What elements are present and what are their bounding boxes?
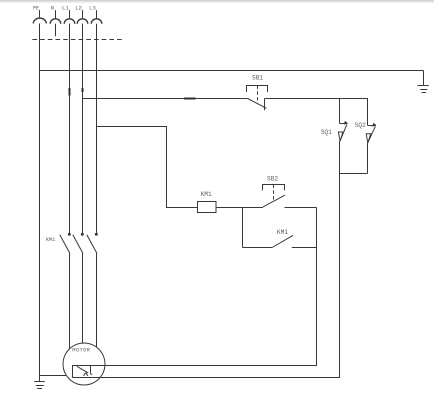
wire PE to motor frame	[40, 375, 67, 377]
contactor KM1 main contact pole 2	[73, 233, 84, 254]
terminal L3	[91, 10, 102, 24]
wire SQ1 branch drop	[339, 99, 341, 124]
wire N stub	[55, 24, 57, 37]
wire L3 to motor	[96, 254, 98, 348]
svg-text:SB2: SB2	[267, 175, 278, 182]
wire L1 vertical	[69, 24, 71, 235]
contactor KM1 main contact pole 3	[87, 233, 98, 254]
wire control rail from L2	[83, 98, 248, 100]
wire SQ2 lower	[367, 143, 369, 174]
wire SQ join down to motor protector	[72, 174, 339, 378]
wire overlap mark on L1	[69, 88, 71, 96]
top page edge shading	[0, 0, 434, 2]
svg-text:L2: L2	[75, 5, 82, 12]
ground bottom left	[34, 382, 45, 389]
pushbutton SB1 (NC stop)	[247, 86, 268, 111]
terminal N	[50, 10, 61, 24]
wire SQ1 lower	[339, 141, 341, 173]
svg-text:L1: L1	[62, 5, 69, 12]
terminal L2	[77, 10, 88, 24]
contact KM1 auxiliary (NO)	[272, 235, 293, 247]
coil KM1	[198, 202, 217, 213]
wire L2 vertical	[82, 24, 84, 235]
wire L2 to motor	[82, 254, 84, 344]
svg-text:SB1: SB1	[252, 74, 263, 81]
svg-text:PE: PE	[33, 5, 39, 11]
wire coil to SB2	[216, 207, 263, 209]
wire SQ parallel bottom join	[340, 173, 368, 175]
wire holding branch bottom left	[243, 247, 273, 249]
wire control rail from L3	[97, 127, 198, 208]
svg-text:KM1: KM1	[277, 229, 288, 236]
motor M	[63, 343, 105, 385]
wire PE top rail	[40, 70, 424, 72]
wire L1 to motor	[69, 254, 71, 350]
wire right vertical to motor protector top	[91, 208, 317, 366]
pushbutton SB2 (NO start)	[263, 185, 286, 207]
svg-text:N: N	[51, 5, 54, 12]
svg-text:SQ1: SQ1	[321, 129, 332, 136]
limit switch SQ1	[338, 121, 348, 142]
contactor KM1 main contact pole 1	[60, 233, 71, 254]
wire aux to right rail	[292, 247, 317, 249]
limit switch SQ2	[366, 123, 376, 143]
svg-text:MOTOR: MOTOR	[72, 348, 90, 354]
wire overlap mark on L2	[82, 88, 84, 92]
wire L3 vertical	[96, 24, 98, 235]
wire SB2 to right rail	[285, 207, 317, 209]
svg-text:SQ2: SQ2	[355, 122, 366, 129]
dashed supply boundary line	[32, 39, 123, 41]
wire PE vertical	[39, 24, 41, 382]
svg-text:KM1: KM1	[46, 237, 56, 243]
thermal protector box	[73, 366, 93, 378]
svg-text:KM1: KM1	[201, 191, 212, 198]
wire overlap mark on control rail	[184, 98, 196, 100]
ground top right	[418, 71, 429, 93]
svg-text:L3: L3	[89, 5, 96, 12]
wire holding branch left drop	[242, 208, 244, 248]
terminal L1	[64, 10, 75, 24]
terminal PE	[33, 10, 46, 23]
wire SB1 to SQ branch	[265, 99, 368, 126]
